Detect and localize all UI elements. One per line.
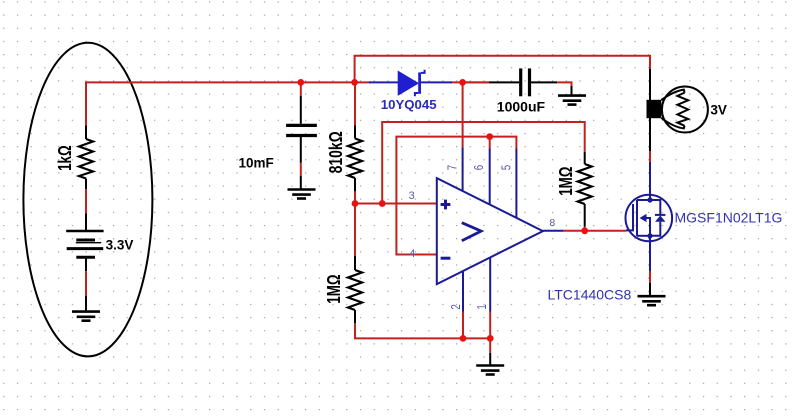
wire: pin3 line [355,203,437,205]
wire: hysteresis rail y=122 [382,122,585,204]
svg-text:5: 5 [500,165,514,170]
wire: diode cathode to junction (462.6,82.4) [450,81,490,83]
wire: 1000uF right to ground [531,81,557,83]
wire: main top-left net, corner at (86,82.4) [86,82,371,125]
op-amp pin 1 [489,258,491,312]
junction node at pin2 bottom [460,335,467,342]
junction node at pin3 branch [379,200,386,207]
op-amp U1 triangle [437,178,543,284]
diode cathode lead [421,81,452,83]
svg-text:7: 7 [446,165,460,170]
wire: pin2 to bottom rail [462,312,464,339]
svg-text:10YQ045: 10YQ045 [381,97,437,112]
wire: 810k bottom lead [354,178,356,191]
svg-text:1MΩ: 1MΩ [556,166,577,195]
MOSFET gate lead and plate [626,204,633,230]
junction node at pin6 tap [486,133,493,140]
svg-text:4: 4 [409,248,415,260]
op-amp plus sign [441,200,451,210]
wire: tap down to 10mF [300,82,302,96]
resistor 1kohm zigzag [79,139,93,179]
op-amp pin 2 [462,272,464,312]
wire: lamp top lead [649,69,651,100]
wire: 10mF to ground [300,137,302,163]
resistor R 1kohm leads [85,125,87,139]
enclosure ellipse (black loop around source branch) [23,43,152,357]
resistor 1Mohm (right) zigzag [578,164,592,204]
ground (op-amp) [476,364,504,367]
junction node at pin1/ground [487,335,494,342]
lamp X1 base [647,100,662,118]
MOSFET source stub [637,235,650,237]
capacitor C 10mF plates [286,124,317,127]
wire: junction to 1000uF [463,81,490,83]
ground (MOSFET source) [638,295,666,298]
lamp glass circle [662,87,708,133]
svg-text:3V: 3V [710,102,727,117]
wire: top rail from (354.6,55.8) to lamp [355,56,650,83]
wire: battery to ground [85,257,87,271]
ground (battery) [72,310,100,313]
svg-text:1kΩ: 1kΩ [55,145,76,171]
op-amp minus sign [441,257,451,260]
MOSFET Q1 circle [626,195,673,242]
battery V1 3.3V plates [66,230,103,233]
svg-text:3: 3 [409,190,415,202]
wire: pin1 to bottom rail and ground [489,312,491,353]
schottky hooks [421,70,425,73]
op-amp pin 5 [515,149,517,219]
lamp filament zigzag [677,93,688,126]
wire: op-amp output to gate [543,230,564,232]
wire: junction (354.6,82.4) down to 810k [354,82,356,125]
svg-text:10mF: 10mF [239,156,274,171]
junction node at diode anode branch [351,79,358,86]
svg-text:1MΩ: 1MΩ [324,274,345,303]
svg-text:8: 8 [549,217,555,229]
MOSFET channel line [636,200,638,236]
ground (10mF) [288,188,316,191]
wire: pin7 net from diode junction down [462,82,464,147]
resistor 1Mohm (left) zigzag [348,270,362,310]
resistor 810kohm zigzag [348,139,362,179]
wire: lamp to MOSFET drain [649,118,651,151]
svg-text:810kΩ: 810kΩ [326,131,346,173]
svg-text:LTC1440CS8: LTC1440CS8 [548,287,632,303]
svg-text:3.3V: 3.3V [106,238,134,253]
ground (1000uF) [558,94,586,97]
capacitor 1000uF plates [519,68,522,96]
wire: MOSFET source to ground [649,236,651,272]
diode D1 10YQ045 anode lead [369,81,398,83]
diode triangle [398,71,418,95]
wire: left chain junction down to 1M bottom-left [354,204,356,256]
svg-text:1: 1 [476,304,490,309]
junction node at output/1M [581,227,588,234]
MOSFET middle stub with arrow [640,214,647,222]
junction node at 810k bottom [352,200,359,207]
MOSFET drain lead [649,195,651,200]
lamp envelope arcs [661,90,684,100]
junction node at diode cathode branch [459,79,466,86]
op-amp pin 6 [489,149,491,205]
svg-text:6: 6 [473,165,487,170]
wire: 1M left bottom lead to bottom rail [354,310,356,323]
svg-text:1000uF: 1000uF [497,98,546,114]
junction node at 10mF tap [297,79,304,86]
wire: 1k to battery [85,189,87,213]
wire: 1M right resistor top lead [584,152,586,164]
svg-text:MGSF1N02LT1G: MGSF1N02LT1G [675,210,783,226]
diode schottky bar [418,72,421,93]
svg-text:2: 2 [450,304,464,309]
op-amp pin 7 [462,147,464,191]
MOSFET drain stub [637,199,650,201]
wire: 1M right bottom lead [584,204,586,227]
MOSFET body diode [650,200,660,215]
op-amp comparator mark [462,223,481,241]
wire: pin4/pin6/pin5 net [396,137,516,255]
